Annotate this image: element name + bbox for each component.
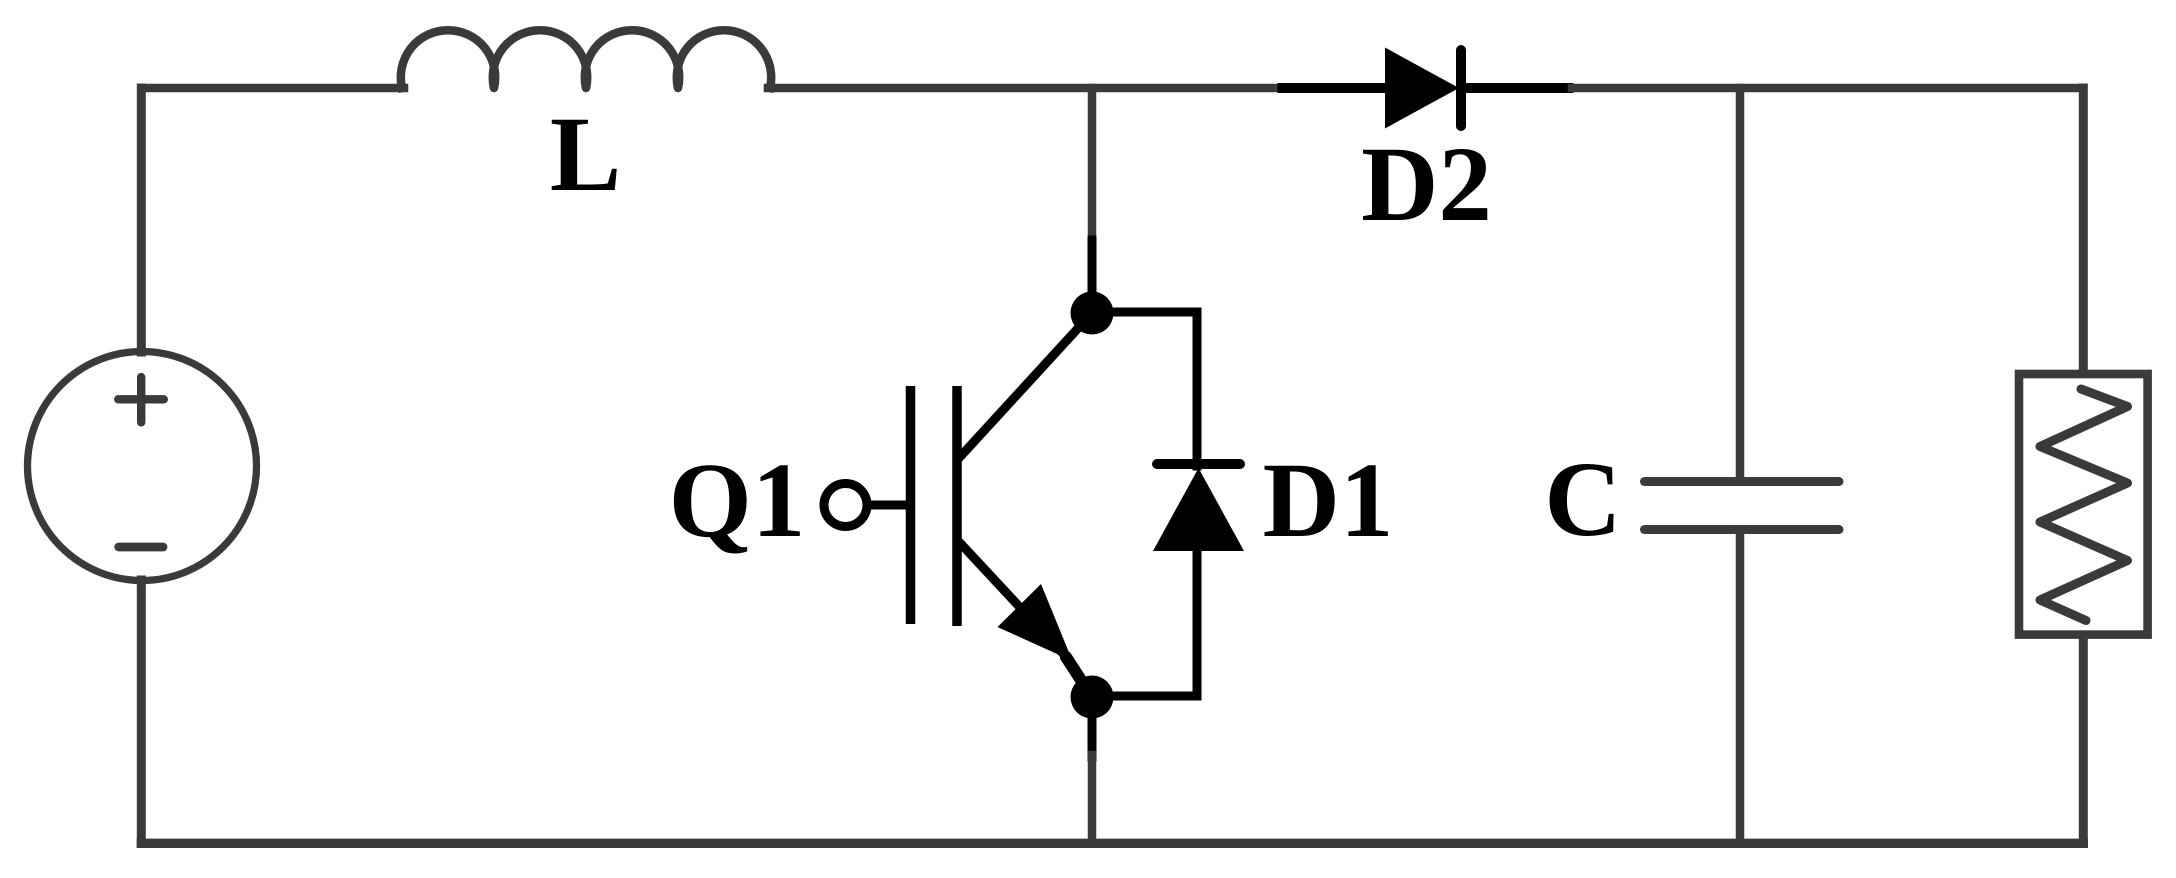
transistor Q1 emitter lead <box>961 544 1069 660</box>
node collector junction dot <box>1071 292 1114 335</box>
inductor L <box>401 30 771 88</box>
node emitter junction dot <box>1071 676 1114 719</box>
wire top middle <box>768 84 1280 93</box>
load resistor zigzag <box>2040 389 2128 621</box>
wire D1 anode to emitter node <box>1092 549 1197 696</box>
svg-text:D2: D2 <box>1361 126 1492 244</box>
wire switch-node vertical upper (gray) <box>1088 88 1097 243</box>
transistor Q1 body bar <box>952 386 962 626</box>
transistor Q1 emitter arrowhead <box>998 584 1073 661</box>
diode D2 triangle <box>1385 48 1459 129</box>
voltage source plus sign <box>118 377 164 422</box>
wire D2 anode lead <box>1278 83 1386 93</box>
capacitor C top plate <box>1645 477 1840 486</box>
wire top right <box>1572 84 2083 93</box>
transistor Q1 gate bar <box>906 386 916 624</box>
capacitor C bottom plate <box>1645 525 1840 534</box>
wire collector node to D1 cathode <box>1092 312 1197 466</box>
wire right lower vertical <box>2079 635 2088 843</box>
wire below emitter node (gray) <box>1088 755 1097 843</box>
svg-text:C: C <box>1544 441 1621 559</box>
wire capacitor bottom vertical <box>1736 531 1745 843</box>
wire below emitter node (black) <box>1088 698 1097 757</box>
transistor Q1 collector lead <box>959 313 1092 458</box>
diode D1 triangle <box>1153 468 1244 551</box>
diode D2 cathode bar <box>1456 50 1466 126</box>
transistor Q1 gate terminal circle <box>824 484 867 527</box>
wire top-left horizontal <box>141 84 404 93</box>
wire left upper vertical <box>137 88 146 352</box>
wire D2 cathode lead <box>1459 83 1574 93</box>
diode D1 cathode bar <box>1157 459 1240 469</box>
wire capacitor top vertical <box>1736 88 1745 479</box>
wire switch-node vertical upper (black) <box>1088 240 1097 313</box>
transistor Q1 gate lead <box>867 501 906 510</box>
svg-text:L: L <box>550 96 621 214</box>
svg-text:D1: D1 <box>1263 442 1394 560</box>
wire left lower vertical <box>137 580 146 843</box>
voltage source circle <box>28 352 257 581</box>
load resistor box <box>2019 374 2148 635</box>
wire right upper vertical <box>2079 88 2088 372</box>
wire bottom rail <box>141 839 2083 848</box>
voltage source minus sign <box>119 543 163 552</box>
transistor Q1 emitter lead neck to node <box>1066 657 1092 697</box>
svg-text:Q1: Q1 <box>669 442 806 560</box>
